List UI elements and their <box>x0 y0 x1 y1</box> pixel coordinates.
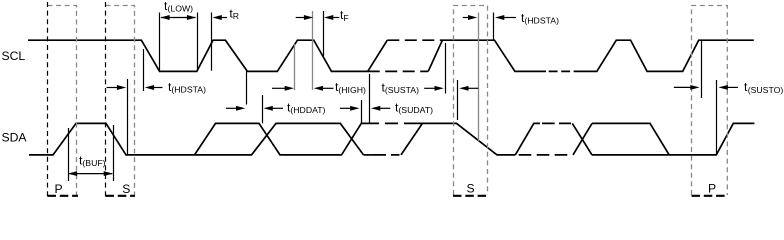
wire reference line t(HDDAT) right <box>262 95 264 123</box>
node P box 1 (stop) gray dashed <box>48 6 77 196</box>
svg-text:S: S <box>122 182 130 196</box>
node S box 2 bottom black dashed <box>106 195 136 197</box>
wire SCL rise to high before S <box>428 40 546 71</box>
wire SDA low rail stub after X2 <box>364 154 375 156</box>
wire reference line tF right <box>323 11 325 56</box>
svg-text:SDA: SDA <box>2 131 28 145</box>
svg-text:R: R <box>233 11 239 21</box>
wire SDA dashed high before X4 <box>542 122 571 124</box>
wire SCL dashed low mid <box>549 70 571 72</box>
wire SCL right section <box>574 40 754 71</box>
wire SDA solid high to S box and shallow fall <box>404 123 515 154</box>
wire gray reference line t(HIGH) left <box>294 44 296 90</box>
dimension t(SUDAT) arrows <box>340 107 351 109</box>
wire reference line t(SUSTA)/t(SUDAT) <box>369 74 371 124</box>
wire SDA hexagon top rail X1 fall low rail and X2 rise <box>195 123 367 154</box>
svg-text:SCL: SCL <box>2 49 26 63</box>
svg-text:(HDSTA): (HDSTA) <box>524 15 559 25</box>
svg-text:(HIGH): (HIGH) <box>338 85 366 95</box>
wire SDA crossover X4 <box>572 123 592 154</box>
wire reference line t(SUSTA) right <box>445 43 447 94</box>
dimension t(HDSTA)1 arrows <box>107 87 118 89</box>
dimension t(SUSTO) arrows <box>674 86 691 88</box>
svg-text:(HDSTA): (HDSTA) <box>171 85 206 95</box>
dimension t(LOW) double arrow <box>161 17 196 19</box>
node S box 2 (start) gray dashed <box>106 6 135 196</box>
wire reference line t(BUF) left <box>68 128 70 181</box>
wire SDA rise merging into high <box>401 123 422 154</box>
wire gray reference line t(HIGH) right / tF left <box>312 11 314 90</box>
wire reference line t(LOW) right <box>197 13 199 71</box>
node P box 1 bottom black dashed <box>48 195 79 197</box>
svg-text:(SUSTA): (SUSTA) <box>385 85 419 95</box>
svg-text:S: S <box>467 182 475 196</box>
svg-text:P: P <box>708 182 716 196</box>
svg-text:P: P <box>55 182 63 196</box>
node P box 4 bottom black dashed <box>692 195 728 197</box>
wire reference line t(SUSTO) right <box>716 80 718 154</box>
svg-text:(LOW): (LOW) <box>168 4 194 14</box>
wire reference line t(BUF) right <box>113 125 115 181</box>
wire black dashed reference line S1 <box>105 2 107 197</box>
dimension t(HIGH) arrows <box>272 87 286 89</box>
wire reference line tR right <box>211 13 213 71</box>
wire reference line t(HDSTA)1 left <box>127 79 129 155</box>
wire SDA rails right <box>592 123 754 154</box>
wire gray reference line t(HDSTA)2 left <box>478 13 480 142</box>
wire SDA left section low rail through X1 rise and top rail to X2 fall <box>29 123 364 154</box>
svg-text:(SUDAT): (SUDAT) <box>398 105 433 115</box>
wire SCL main waveform <box>28 40 387 71</box>
wire SCL dashed high branch <box>387 39 442 41</box>
wire reference line t(HDDAT) left <box>246 71 248 105</box>
wire reference line t(HDSTA)2 right <box>493 13 495 41</box>
node P box 4 (stop) gray dashed <box>692 6 728 196</box>
wire reference line t(LOW) left <box>159 13 161 71</box>
svg-text:(BUF): (BUF) <box>82 158 105 168</box>
wire reference line SDA fall corner <box>457 80 459 120</box>
node S box 3 (repeated start) gray dashed <box>454 6 488 196</box>
wire SDA dashed low after X3 <box>374 154 400 156</box>
wire SDA dashed high after X3 <box>366 122 402 124</box>
dimension t(BUF) double arrow <box>69 173 112 175</box>
wire SDA dashed low before X4 <box>519 154 568 156</box>
svg-text:(HDDAT): (HDDAT) <box>290 105 325 115</box>
wire SCL dashed low branch <box>368 70 429 72</box>
svg-text:(SUSTO): (SUSTO) <box>748 85 784 95</box>
wire SDA rise after S box <box>515 123 540 154</box>
wire reference line t(SUSTO) left <box>701 41 703 98</box>
dimension t(SUSTA) arrow <box>424 87 435 89</box>
dimension arrow at SDA fall corner <box>468 87 479 89</box>
dimension t(HDDAT) arrows <box>226 107 237 109</box>
node S box 3 bottom black dashed <box>453 195 488 197</box>
dimension tF arrows <box>296 17 305 19</box>
wire black dashed reference line P1 <box>47 2 49 197</box>
wire reference line t(HDSTA)1 right <box>143 49 145 91</box>
dimension t(HDSTA)2 arrows <box>463 17 469 19</box>
wire reference line t(SUDAT) left <box>361 100 363 123</box>
dimension tR arrow <box>221 17 227 19</box>
svg-text:F: F <box>343 13 348 23</box>
